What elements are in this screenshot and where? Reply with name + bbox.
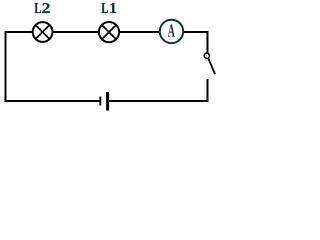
battery cell: short negative plate [99,97,101,106]
wire: right vertical from top corner down to switch pivot [207,31,209,54]
label L1 [102,3,117,13]
wire: right vertical from switch blade tip down to bottom corner [207,79,209,102]
wire: bottom from left corner to battery negative plate [5,100,100,102]
wire: between lamp L2 and lamp L1 [53,31,100,33]
ammeter U1 [160,20,183,43]
battery cell: long positive plate [106,92,109,111]
wire: left vertical side [5,31,7,102]
wire: from ammeter A to top-right corner [184,31,209,33]
lamp L2 [33,22,53,42]
lamp L1 [99,22,119,42]
wire: bottom from battery positive plate to right corner [109,100,209,102]
switch S1 blade [208,58,215,74]
label L2 [35,3,50,13]
switch S1 pivot [204,53,209,58]
wire: between lamp L1 and ammeter A [119,31,160,33]
wire: top-left from left corner to lamp L2 [5,31,33,33]
